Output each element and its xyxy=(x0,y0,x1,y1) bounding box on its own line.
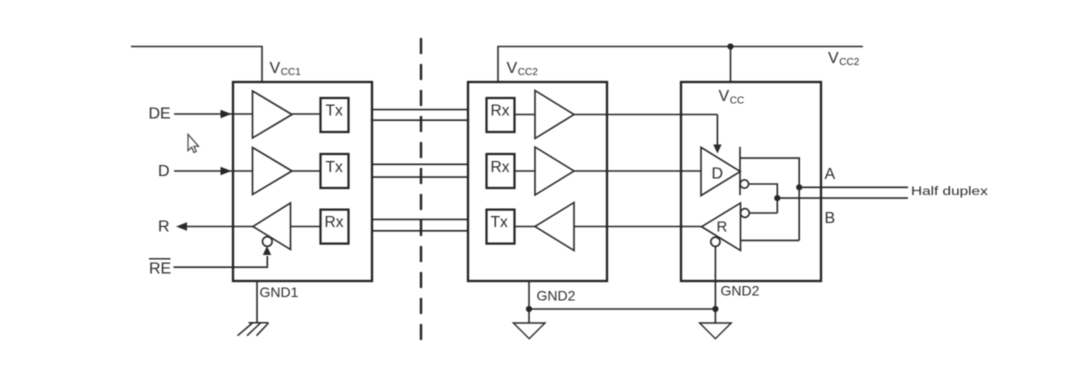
label GND2 left xyxy=(537,288,576,304)
ground symbol GND1 (earth) xyxy=(238,323,269,336)
wire GND2 stub U2 xyxy=(528,281,530,323)
wire GND1 stub xyxy=(256,281,258,323)
wire buffer to Tx2 xyxy=(292,170,321,172)
bubble R inverting input xyxy=(741,209,750,218)
wire R inverting input xyxy=(749,212,777,214)
wire DE input xyxy=(174,113,252,115)
svg-text:V: V xyxy=(270,60,281,77)
svg-text:D: D xyxy=(712,166,724,183)
svg-text:D: D xyxy=(158,163,170,180)
wire Rx1 to buffer xyxy=(515,114,536,116)
svg-text:Tx: Tx xyxy=(491,214,508,231)
svg-text:CC2: CC2 xyxy=(839,57,859,68)
label VCC1 xyxy=(270,60,302,78)
buffer 3 U2 (points left) xyxy=(535,203,574,251)
label GND1 xyxy=(260,284,299,300)
label GND2 right xyxy=(721,283,760,299)
svg-text:A: A xyxy=(825,166,836,183)
Tx block U2 xyxy=(487,210,515,244)
label B xyxy=(825,210,836,227)
Rx block 1 xyxy=(487,98,515,132)
receiver R xyxy=(702,203,741,251)
wire GND2 bus xyxy=(529,308,715,310)
block U2 isolated-side-2 xyxy=(468,82,607,281)
label A xyxy=(825,166,836,183)
wire buffer to Tx1 xyxy=(292,113,321,115)
isolation channel pair 1 xyxy=(373,109,468,111)
bubble D inverting out xyxy=(740,180,748,188)
wire VCC1 feed xyxy=(131,47,262,83)
arrowhead DE into block xyxy=(221,110,232,119)
svg-text:Half duplex: Half duplex xyxy=(911,185,988,198)
block U3 transceiver xyxy=(681,82,821,281)
isolation channel pair 2 xyxy=(373,163,468,165)
junction dot GND2 left xyxy=(526,306,532,312)
svg-text:GND2: GND2 xyxy=(537,288,576,304)
wire Rx2 to buffer xyxy=(515,170,536,172)
svg-text:Tx: Tx xyxy=(326,103,343,120)
wire enable drop to D xyxy=(716,115,718,147)
svg-text:B: B xyxy=(825,210,836,227)
svg-text:V: V xyxy=(719,88,730,105)
Tx block 1 xyxy=(321,98,349,132)
svg-text:CC1: CC1 xyxy=(281,67,301,78)
wire D noninverting out xyxy=(740,158,799,240)
wire line A xyxy=(799,186,908,188)
arrowhead RE up into bubble xyxy=(263,246,271,255)
junction dot GND2 right xyxy=(712,306,718,312)
label VCC2 left xyxy=(507,60,539,78)
ground symbol GND2 left xyxy=(513,323,545,339)
Rx block 2 xyxy=(487,154,515,188)
block U1 isolated-side-1 xyxy=(233,82,372,281)
wire line B xyxy=(777,197,908,199)
wire Rx1 to buffer R xyxy=(291,226,321,228)
label DE xyxy=(149,106,171,123)
svg-text:Rx: Rx xyxy=(325,214,344,231)
svg-text:RE: RE xyxy=(149,261,171,278)
svg-text:V: V xyxy=(828,50,839,67)
buffer 2 U2 xyxy=(535,147,574,195)
bubble R enable xyxy=(711,237,720,246)
arrowhead R output xyxy=(176,222,187,231)
ground symbol GND2 right xyxy=(700,323,732,339)
Rx block left xyxy=(321,210,349,244)
differential output bar xyxy=(739,147,741,195)
wire RE xyxy=(174,256,268,267)
svg-text:DE: DE xyxy=(149,106,171,123)
junction dot VCC2 xyxy=(727,43,733,49)
wire R enable to GND2 xyxy=(714,246,716,323)
buffer 1 U2 xyxy=(535,91,574,139)
arrowhead into driver D xyxy=(713,145,721,154)
svg-text:Rx: Rx xyxy=(491,103,510,120)
svg-text:GND2: GND2 xyxy=(721,283,760,299)
wire D inverting out xyxy=(749,184,778,213)
svg-text:V: V xyxy=(507,60,518,77)
svg-text:R: R xyxy=(717,219,728,236)
label RE (overbar) xyxy=(149,261,171,278)
wire row1 to U3 xyxy=(574,114,717,116)
wire R noninverting input xyxy=(741,239,800,241)
label D xyxy=(158,163,170,180)
junction dot B xyxy=(774,195,780,201)
svg-text:CC: CC xyxy=(730,95,744,106)
isolation barrier dashed line xyxy=(420,38,422,349)
svg-text:R: R xyxy=(158,219,170,236)
wire D input xyxy=(174,170,252,172)
svg-text:Rx: Rx xyxy=(491,159,510,176)
wire R output xyxy=(187,226,253,228)
wire buffer3 to Tx xyxy=(515,226,536,228)
label VCC2 right xyxy=(828,50,860,68)
Tx block 2 xyxy=(321,154,349,188)
label R xyxy=(158,219,170,236)
wire row2 to U3 (D input) xyxy=(574,170,701,172)
junction dot A xyxy=(796,184,802,190)
buffer DE xyxy=(253,91,293,138)
buffer D xyxy=(253,148,293,195)
driver D xyxy=(701,147,740,195)
label VCC inside U3 xyxy=(719,88,745,106)
svg-text:GND1: GND1 xyxy=(260,284,299,300)
buffer R (points left) xyxy=(253,203,291,250)
isolation channel pair 3 xyxy=(373,218,468,220)
arrowhead D into block xyxy=(221,167,232,176)
svg-text:Tx: Tx xyxy=(326,159,343,176)
label Half duplex xyxy=(911,185,988,198)
mouse cursor xyxy=(188,134,199,152)
enable bubble on R buffer xyxy=(263,237,273,247)
wire VCC2 drop to U3 xyxy=(730,47,732,83)
wire VCC2 top rail xyxy=(498,47,863,83)
wire row3 from U3 (R output) xyxy=(574,226,702,228)
svg-text:CC2: CC2 xyxy=(518,67,538,78)
